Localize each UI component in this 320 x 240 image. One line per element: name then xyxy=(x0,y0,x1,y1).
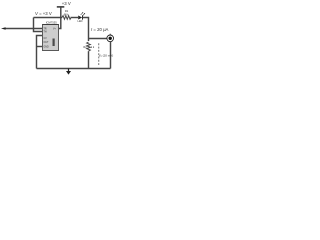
wire bottom rail xyxy=(37,68,111,70)
wire top-left horizontal xyxy=(34,17,63,19)
svg-text:+3 V: +3 V xyxy=(62,1,71,6)
svg-text:V2 (20 mV): V2 (20 mV) xyxy=(99,54,114,59)
svg-text:GND: GND xyxy=(44,47,49,49)
wire jack to rail xyxy=(110,42,112,69)
svg-text:CV: CV xyxy=(44,38,48,40)
wire input line with left arrowhead xyxy=(1,27,43,29)
svg-text:TH: TH xyxy=(44,32,47,34)
output jack J1 xyxy=(107,34,114,42)
wire ground-side left vertical with pin stub xyxy=(37,36,43,69)
wire R1 to LED xyxy=(71,17,79,19)
resistor R1 xyxy=(62,9,71,19)
IC U1 timer xyxy=(43,21,59,51)
svg-text:R2: R2 xyxy=(83,45,87,49)
svg-text:ICM7555: ICM7555 xyxy=(46,21,57,25)
svg-text:LED: LED xyxy=(78,19,83,23)
wire left vertical to pin stub xyxy=(34,18,43,32)
svg-text:I = 20 μA: I = 20 μA xyxy=(91,27,109,32)
wire supply vertical to IC pin xyxy=(59,7,61,29)
svg-text:OUT: OUT xyxy=(44,42,49,44)
LED D1 xyxy=(78,12,86,23)
svg-text:TR: TR xyxy=(44,29,47,31)
power +3V supply bar xyxy=(57,1,71,7)
wire pin stub lower left xyxy=(37,46,43,48)
wire LED to right corner, down to node xyxy=(83,18,89,42)
dashed measurement line xyxy=(98,43,100,66)
svg-text:68 k: 68 k xyxy=(64,12,70,16)
resistor R2 xyxy=(83,42,94,51)
svg-text:V = +3 V: V = +3 V xyxy=(35,11,52,16)
ground xyxy=(66,69,71,75)
wire node to jack xyxy=(89,38,108,40)
wire R2 to ground rail xyxy=(88,51,90,68)
